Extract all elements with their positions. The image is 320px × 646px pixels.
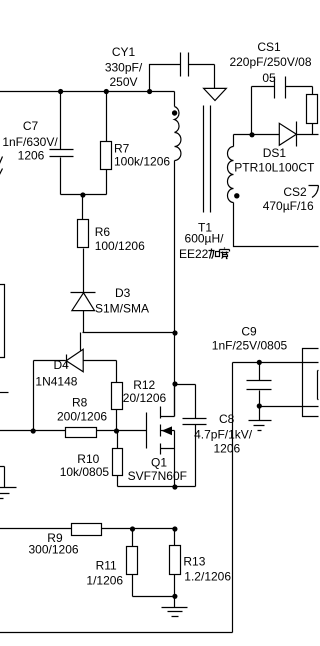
svg-text:S1M/SMA: S1M/SMA	[95, 302, 149, 316]
svg-text:CY1: CY1	[112, 45, 136, 59]
svg-text:1/1206: 1/1206	[86, 573, 123, 587]
svg-text:220pF/250V/08: 220pF/250V/08	[229, 55, 311, 69]
svg-text:D3: D3	[115, 286, 131, 300]
svg-text:100/1206: 100/1206	[95, 239, 145, 253]
svg-text:470µF/16: 470µF/16	[263, 199, 314, 213]
svg-text:SVF7N60F: SVF7N60F	[128, 469, 187, 483]
svg-text:R7: R7	[114, 142, 130, 156]
svg-text:C9: C9	[241, 325, 257, 339]
svg-text:1nF/25V/0805: 1nF/25V/0805	[212, 339, 288, 353]
svg-text:D4: D4	[54, 358, 70, 372]
svg-text:600µH/: 600µH/	[185, 232, 225, 246]
svg-text:R11: R11	[96, 559, 117, 573]
svg-text:4.7pF/1kV/: 4.7pF/1kV/	[194, 427, 253, 441]
svg-text:R8: R8	[72, 395, 88, 409]
svg-text:1206: 1206	[18, 149, 45, 163]
svg-text:R12: R12	[133, 378, 155, 392]
svg-text:10k/0805: 10k/0805	[60, 465, 110, 479]
svg-text:200/1206: 200/1206	[57, 410, 107, 424]
svg-text:CS2: CS2	[283, 185, 307, 199]
svg-text:100k/1206: 100k/1206	[114, 155, 170, 169]
svg-text:CS1: CS1	[257, 40, 281, 54]
svg-text:Q1: Q1	[151, 455, 167, 469]
svg-text:1.2/1206: 1.2/1206	[184, 570, 231, 584]
svg-text:PTR10L100CT: PTR10L100CT	[234, 161, 315, 175]
svg-text:250V: 250V	[109, 75, 137, 89]
svg-text:C7: C7	[23, 119, 39, 133]
svg-text:300/1206: 300/1206	[29, 543, 79, 557]
svg-text:1206: 1206	[214, 441, 241, 455]
svg-text:R13: R13	[183, 555, 205, 569]
svg-text:1N4148: 1N4148	[35, 375, 77, 389]
svg-text:1nF/630V/: 1nF/630V/	[2, 135, 58, 149]
svg-text:R10: R10	[77, 452, 99, 466]
svg-text:20/1206: 20/1206	[123, 391, 167, 405]
svg-text:R6: R6	[95, 225, 111, 239]
svg-text:330pF/: 330pF/	[105, 61, 143, 75]
svg-text:EE22: EE22	[179, 247, 209, 261]
svg-text:05: 05	[262, 71, 276, 85]
svg-text:DS1: DS1	[263, 146, 287, 160]
svg-text:C8: C8	[219, 412, 235, 426]
